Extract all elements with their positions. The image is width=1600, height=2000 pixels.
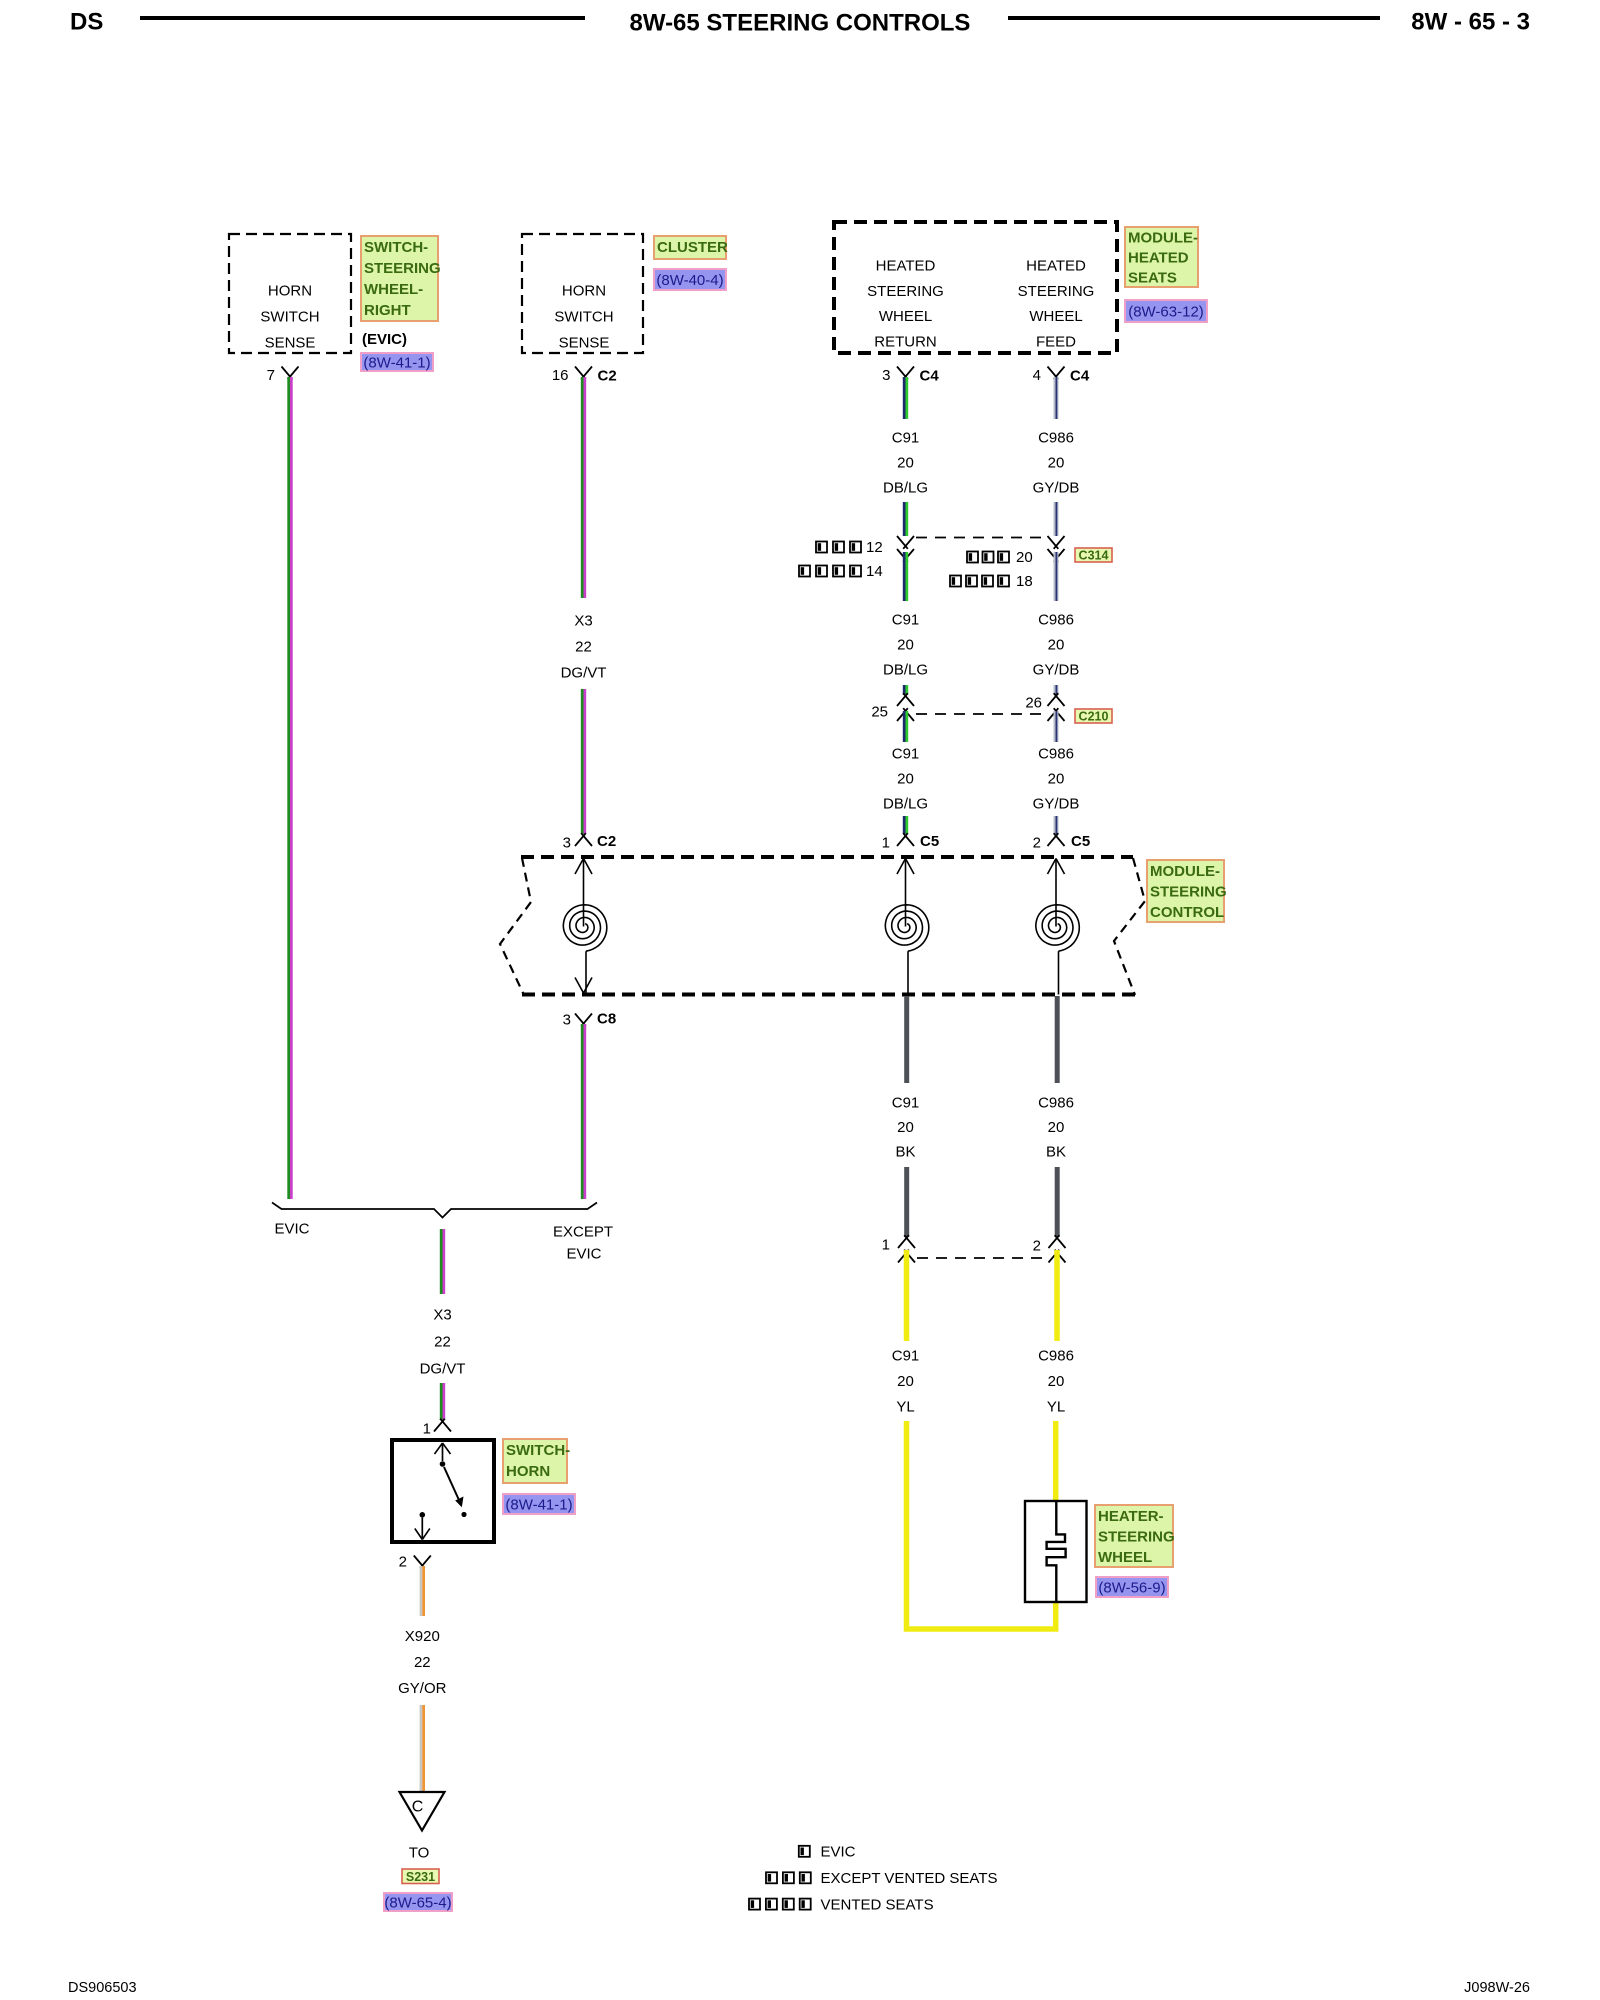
- svg-text:C91: C91: [892, 1095, 920, 1112]
- svg-text:HEATED: HEATED: [876, 258, 936, 275]
- svg-text:8W - 65 - 3: 8W - 65 - 3: [1411, 9, 1530, 36]
- svg-text:HEATED: HEATED: [1128, 250, 1189, 267]
- svg-text:EVIC: EVIC: [566, 1246, 601, 1263]
- svg-text:CLUSTER: CLUSTER: [657, 239, 728, 256]
- svg-text:DB/LG: DB/LG: [883, 662, 928, 679]
- svg-text:3: 3: [563, 835, 571, 852]
- svg-text:C986: C986: [1038, 746, 1074, 763]
- svg-text:HORN: HORN: [268, 283, 312, 300]
- svg-text:X3: X3: [433, 1307, 451, 1324]
- svg-text:20: 20: [1048, 637, 1065, 654]
- svg-text:22: 22: [575, 639, 592, 656]
- svg-text:X920: X920: [405, 1628, 440, 1645]
- svg-text:DB/LG: DB/LG: [883, 480, 928, 497]
- svg-text:C210: C210: [1079, 710, 1109, 724]
- svg-text:C986: C986: [1038, 612, 1074, 629]
- svg-text:EXCEPT: EXCEPT: [553, 1224, 613, 1241]
- svg-text:(8W-41-1): (8W-41-1): [363, 355, 430, 372]
- svg-text:26: 26: [1025, 695, 1042, 712]
- svg-text:20: 20: [1048, 1119, 1065, 1136]
- svg-text:7: 7: [267, 367, 275, 384]
- svg-text:RIGHT: RIGHT: [364, 302, 411, 319]
- svg-text:22: 22: [414, 1654, 431, 1671]
- svg-text:SWITCH-: SWITCH-: [364, 239, 428, 256]
- svg-text:YL: YL: [896, 1399, 914, 1416]
- svg-text:STEERING: STEERING: [1098, 1528, 1175, 1545]
- svg-text:14: 14: [866, 563, 883, 580]
- svg-text:2: 2: [1033, 835, 1041, 852]
- svg-text:20: 20: [897, 455, 914, 472]
- svg-text:1: 1: [882, 1237, 890, 1254]
- svg-text:WHEEL: WHEEL: [1029, 308, 1082, 325]
- svg-text:STEERING: STEERING: [867, 283, 944, 300]
- svg-text:C986: C986: [1038, 1348, 1074, 1365]
- svg-text:(8W-63-12): (8W-63-12): [1128, 304, 1204, 321]
- svg-text:(8W-56-9): (8W-56-9): [1098, 1580, 1165, 1597]
- svg-text:C4: C4: [920, 368, 940, 385]
- svg-text:3: 3: [563, 1012, 571, 1029]
- svg-text:20: 20: [897, 637, 914, 654]
- svg-text:2: 2: [399, 1554, 407, 1571]
- svg-text:HEATED: HEATED: [1026, 258, 1086, 275]
- svg-text:DB/LG: DB/LG: [883, 796, 928, 813]
- svg-text:20: 20: [897, 1119, 914, 1136]
- svg-text:SENSE: SENSE: [559, 335, 610, 352]
- svg-text:C91: C91: [892, 612, 920, 629]
- svg-text:RETURN: RETURN: [874, 333, 937, 350]
- svg-text:EVIC: EVIC: [821, 1844, 856, 1861]
- svg-text:MODULE-: MODULE-: [1128, 230, 1198, 247]
- svg-text:20: 20: [1016, 549, 1033, 566]
- svg-text:1: 1: [882, 835, 890, 852]
- svg-text:FEED: FEED: [1036, 333, 1076, 350]
- svg-text:4: 4: [1033, 367, 1041, 384]
- svg-text:C: C: [412, 1799, 424, 1816]
- svg-text:DG/VT: DG/VT: [420, 1361, 466, 1378]
- svg-text:18: 18: [1016, 573, 1033, 590]
- svg-text:GY/DB: GY/DB: [1033, 662, 1080, 679]
- svg-text:TO: TO: [409, 1845, 430, 1862]
- svg-text:2: 2: [1033, 1238, 1041, 1255]
- svg-text:C5: C5: [920, 833, 939, 850]
- svg-text:STEERING: STEERING: [1150, 883, 1227, 900]
- svg-text:12: 12: [866, 539, 883, 556]
- svg-text:(8W-65-4): (8W-65-4): [384, 1895, 451, 1912]
- svg-text:C2: C2: [597, 833, 616, 850]
- svg-text:3: 3: [882, 367, 890, 384]
- svg-text:C314: C314: [1079, 549, 1109, 563]
- svg-text:25: 25: [871, 704, 888, 721]
- svg-text:22: 22: [434, 1334, 451, 1351]
- svg-text:S231: S231: [406, 1870, 435, 1884]
- svg-text:(EVIC): (EVIC): [362, 331, 407, 348]
- svg-text:DS: DS: [70, 9, 103, 36]
- svg-text:20: 20: [897, 771, 914, 788]
- svg-text:BK: BK: [895, 1144, 915, 1161]
- svg-text:DS906503: DS906503: [68, 1980, 137, 1996]
- svg-text:C2: C2: [598, 368, 617, 385]
- svg-text:C986: C986: [1038, 430, 1074, 447]
- svg-text:1: 1: [423, 1421, 431, 1438]
- svg-text:SWITCH: SWITCH: [554, 309, 613, 326]
- svg-text:X3: X3: [574, 613, 592, 630]
- svg-text:WHEEL: WHEEL: [879, 308, 932, 325]
- svg-text:STEERING: STEERING: [1018, 283, 1095, 300]
- svg-text:(8W-41-1): (8W-41-1): [505, 1497, 572, 1514]
- svg-text:HORN: HORN: [562, 283, 606, 300]
- svg-text:SWITCH-: SWITCH-: [506, 1442, 570, 1459]
- svg-text:STEERING: STEERING: [364, 260, 441, 277]
- svg-text:20: 20: [1048, 771, 1065, 788]
- svg-text:EXCEPT VENTED SEATS: EXCEPT VENTED SEATS: [821, 1870, 998, 1887]
- svg-text:SWITCH: SWITCH: [260, 309, 319, 326]
- svg-text:WHEEL: WHEEL: [1098, 1549, 1152, 1566]
- svg-text:WHEEL-: WHEEL-: [364, 281, 423, 298]
- svg-text:8W-65 STEERING CONTROLS: 8W-65 STEERING CONTROLS: [630, 10, 971, 37]
- svg-text:SENSE: SENSE: [265, 335, 316, 352]
- svg-text:CONTROL: CONTROL: [1150, 904, 1224, 921]
- svg-text:MODULE-: MODULE-: [1150, 863, 1220, 880]
- svg-text:J098W-26: J098W-26: [1464, 1980, 1530, 1996]
- svg-text:HEATER-: HEATER-: [1098, 1508, 1164, 1525]
- svg-text:20: 20: [1048, 455, 1065, 472]
- svg-text:20: 20: [897, 1373, 914, 1390]
- svg-text:HORN: HORN: [506, 1463, 550, 1480]
- svg-text:GY/OR: GY/OR: [398, 1680, 447, 1697]
- svg-text:GY/DB: GY/DB: [1033, 796, 1080, 813]
- svg-text:VENTED SEATS: VENTED SEATS: [821, 1896, 934, 1913]
- svg-text:C986: C986: [1038, 1095, 1074, 1112]
- svg-text:DG/VT: DG/VT: [561, 665, 607, 682]
- svg-text:(8W-40-4): (8W-40-4): [656, 272, 723, 289]
- svg-text:C91: C91: [892, 430, 920, 447]
- svg-text:YL: YL: [1047, 1399, 1065, 1416]
- svg-text:C5: C5: [1071, 833, 1090, 850]
- svg-text:16: 16: [552, 367, 569, 384]
- svg-text:SEATS: SEATS: [1128, 270, 1177, 287]
- svg-text:20: 20: [1048, 1373, 1065, 1390]
- svg-text:C91: C91: [892, 1348, 920, 1365]
- svg-text:C4: C4: [1070, 368, 1090, 385]
- svg-text:GY/DB: GY/DB: [1033, 480, 1080, 497]
- svg-text:C91: C91: [892, 746, 920, 763]
- svg-text:BK: BK: [1046, 1144, 1066, 1161]
- svg-text:EVIC: EVIC: [274, 1221, 309, 1238]
- svg-text:C8: C8: [597, 1011, 616, 1028]
